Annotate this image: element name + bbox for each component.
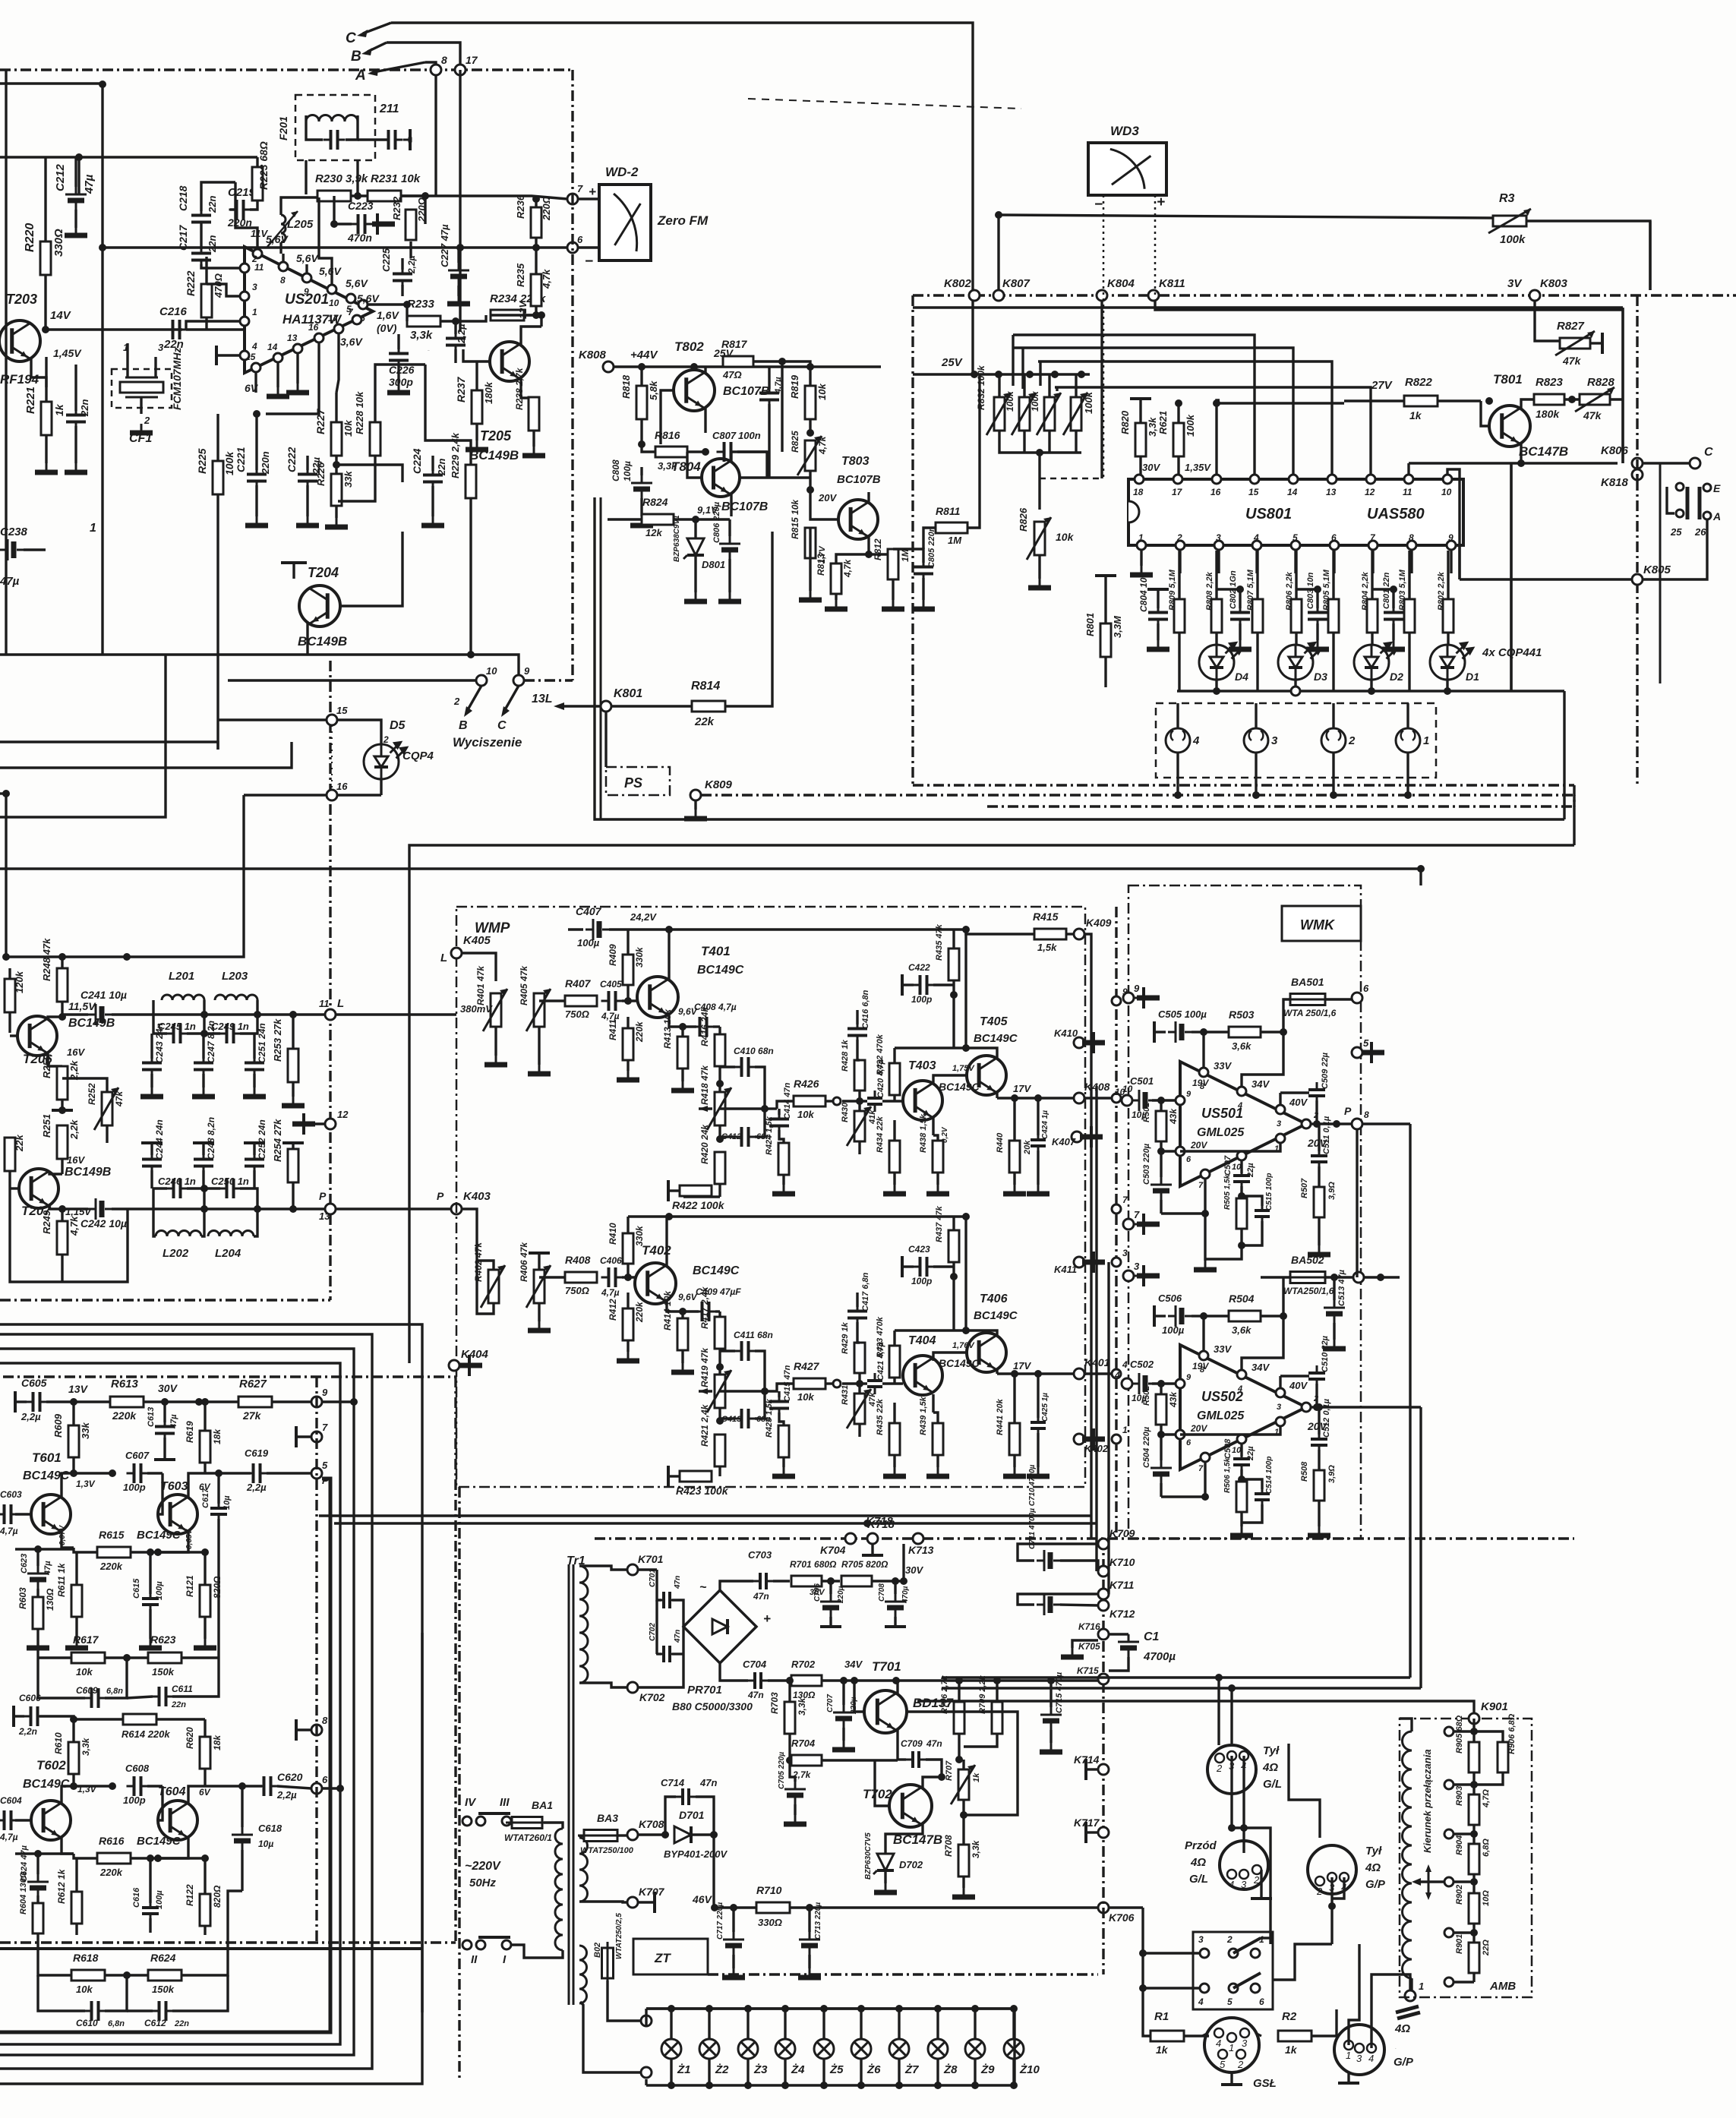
svg-text:R2: R2	[1282, 2010, 1297, 2023]
resistor R808	[1211, 599, 1222, 633]
capacitor C510	[1308, 1365, 1325, 1387]
node K715	[1098, 1674, 1109, 1684]
svg-text:3,6k: 3,6k	[1232, 1040, 1251, 1052]
wire D801	[694, 519, 696, 538]
wire R249	[61, 1209, 63, 1221]
svg-text:C227 47µ: C227 47µ	[439, 224, 450, 267]
svg-text:10k: 10k	[76, 1984, 93, 1995]
svg-text:R226: R226	[315, 462, 327, 486]
wire pin3 left	[207, 284, 240, 296]
svg-text:C405: C405	[600, 979, 622, 990]
transistor T602	[31, 1801, 71, 1840]
pin 15 US801	[1250, 475, 1259, 484]
svg-text:40V: 40V	[1289, 1097, 1308, 1108]
wire R435	[952, 930, 955, 949]
wire K901 up	[1021, 1701, 1474, 1713]
svg-text:11: 11	[1403, 487, 1412, 497]
svg-text:4Ω: 4Ω	[1190, 1856, 1206, 1869]
svg-text:R121: R121	[185, 1575, 195, 1597]
diode D701	[674, 1826, 691, 1843]
svg-text:4,7µ: 4,7µ	[601, 1287, 620, 1298]
wire mid secondary to BA3	[579, 1835, 582, 1838]
wire T207 collector	[49, 1172, 62, 1174]
capacitor C606	[24, 1706, 46, 1726]
svg-text:ZT: ZT	[654, 1951, 671, 1965]
node K712	[1098, 1600, 1109, 1611]
svg-text:Ż3: Ż3	[753, 2063, 768, 2076]
wire R610	[72, 1719, 74, 1742]
svg-text:BC149C: BC149C	[974, 1032, 1018, 1045]
svg-text:T701: T701	[872, 1659, 901, 1674]
svg-text:R506 1,5k: R506 1,5k	[1223, 1457, 1232, 1493]
ground R226	[325, 518, 348, 527]
junction	[75, 153, 83, 161]
svg-text:47n: 47n	[926, 1738, 942, 1749]
wire R504 to BA502	[1282, 1277, 1284, 1316]
wire R505 bus down	[1205, 1245, 1242, 1259]
svg-text:WTA250/1,6: WTA250/1,6	[1283, 1286, 1334, 1296]
wire bottom T207	[10, 1171, 62, 1282]
wire R413	[681, 1027, 683, 1037]
svg-text:47µ: 47µ	[83, 174, 96, 194]
wire R815	[809, 528, 811, 558]
wire bus k line vertical	[1419, 869, 1422, 885]
svg-text:Ż9: Ż9	[980, 2063, 995, 2076]
wire T406 out	[997, 1372, 1074, 1375]
potentiometer R830	[1019, 397, 1030, 431]
svg-text:470n: 470n	[347, 232, 372, 244]
svg-text:100k: 100k	[1030, 390, 1040, 412]
wire T403 emitter	[932, 1117, 934, 1135]
resistor R236	[531, 207, 541, 238]
svg-text:R809 5,1M: R809 5,1M	[1168, 569, 1177, 611]
wire lamp rail bottom	[646, 2084, 1015, 2086]
svg-text:R252: R252	[87, 1083, 97, 1105]
svg-text:BC149C: BC149C	[939, 1081, 980, 1093]
ground pin14	[267, 387, 289, 396]
svg-text:P: P	[322, 1475, 329, 1486]
capacitor C616	[142, 1900, 159, 1921]
capacitor C227	[448, 263, 469, 286]
svg-text:C808: C808	[611, 459, 621, 481]
svg-text:AMB: AMB	[1489, 1980, 1516, 1993]
resistor R611	[71, 1585, 82, 1617]
svg-text:2: 2	[1216, 1763, 1223, 1774]
svg-text:C501: C501	[1130, 1075, 1154, 1087]
wire cap top bars	[1217, 588, 1240, 590]
capacitor C607	[127, 1463, 149, 1483]
wire C228 up	[454, 321, 456, 334]
wire K701 right	[638, 1568, 657, 1570]
wire C711	[1060, 1605, 1098, 1605]
wire T405 collector	[895, 1048, 997, 1059]
svg-text:5,6V: 5,6V	[266, 233, 289, 245]
svg-text:R409: R409	[608, 944, 618, 966]
wire P out down	[1356, 1129, 1358, 1277]
capacitor C711	[1037, 1594, 1060, 1615]
svg-text:11: 11	[319, 998, 330, 1009]
resistor R422	[680, 1185, 712, 1196]
wire T602 emitter	[62, 1837, 74, 1854]
wire C806	[728, 519, 731, 536]
wire T204 base right	[340, 532, 402, 606]
svg-text:R238 2,7k: R238 2,7k	[514, 367, 525, 410]
wire pin2 left	[201, 264, 240, 268]
svg-text:−: −	[1094, 197, 1103, 213]
svg-text:R815 10k: R815 10k	[790, 499, 800, 539]
potentiometer R827	[1560, 338, 1590, 349]
svg-text:C415 47n: C415 47n	[783, 1365, 792, 1402]
wire K714 gnd	[1086, 1768, 1098, 1770]
resistor R703	[784, 1702, 795, 1734]
lamp Z4	[775, 2039, 795, 2059]
svg-text:3: 3	[1271, 734, 1278, 747]
dash-dot 800 left border	[911, 295, 914, 785]
wire T803 out	[869, 549, 896, 554]
svg-text:FCM107MHz: FCM107MHz	[171, 348, 183, 410]
wire pin9 up	[305, 264, 308, 273]
wire T604 collector	[188, 1786, 205, 1804]
wire T803 collector	[867, 492, 870, 503]
capacitor C803	[1308, 605, 1327, 627]
svg-text:750Ω: 750Ω	[565, 1285, 589, 1296]
svg-text:C251 24n: C251 24n	[257, 1023, 267, 1063]
svg-text:C507: C507	[1223, 1155, 1233, 1176]
wire R237	[475, 361, 478, 390]
connector 4ohm G/P	[1334, 2025, 1384, 2075]
wire y1260 row	[6, 955, 127, 958]
potentiometer R828	[1580, 394, 1610, 405]
capacitor C715	[1040, 1707, 1062, 1730]
wire bus y1139	[0, 867, 1421, 870]
node 1 wmk	[1112, 1435, 1121, 1444]
svg-text:10k: 10k	[797, 1109, 814, 1120]
svg-text:30V: 30V	[1142, 462, 1160, 473]
svg-text:C606: C606	[19, 1693, 41, 1703]
svg-text:C: C	[1704, 446, 1713, 459]
wire R811	[923, 528, 936, 549]
wire T804 collector right	[731, 452, 767, 462]
wire lamp Z7	[898, 2009, 900, 2039]
svg-text:C424 1µ: C424 1µ	[1041, 1110, 1049, 1139]
svg-text:9: 9	[524, 665, 530, 677]
resistor R803	[1404, 599, 1415, 633]
svg-text:2: 2	[453, 696, 460, 707]
wire R230-R231	[351, 194, 368, 197]
resistor R228	[370, 422, 380, 456]
svg-text:6: 6	[1186, 1155, 1192, 1164]
node K401	[1074, 1368, 1084, 1379]
wire vertical x2137	[1621, 308, 1624, 463]
svg-text:T401: T401	[701, 944, 731, 958]
pin 4 US502	[1237, 1370, 1246, 1379]
ground K809	[684, 810, 707, 819]
wire R422 row	[683, 1195, 720, 1198]
wire R438	[933, 1135, 938, 1141]
svg-text:T603: T603	[160, 1480, 188, 1493]
svg-text:US501: US501	[1201, 1106, 1243, 1121]
svg-text:34V: 34V	[844, 1659, 863, 1670]
wire C226 dn	[397, 365, 399, 384]
svg-text:D801: D801	[702, 559, 725, 570]
svg-text:4,7Ω: 4,7Ω	[1482, 1789, 1491, 1808]
svg-text:3: 3	[1277, 1403, 1281, 1412]
svg-text:R235: R235	[515, 263, 526, 287]
capacitor C249	[219, 1024, 241, 1043]
node 3 wmk	[1112, 1258, 1121, 1267]
wire T603 collector to C619	[205, 1472, 251, 1474]
svg-text:T205: T205	[480, 428, 512, 443]
tap pin 2350	[1444, 1780, 1454, 1789]
svg-text:100µ: 100µ	[1162, 1324, 1185, 1336]
wire R121	[204, 1552, 206, 1585]
svg-text:6: 6	[322, 1774, 328, 1785]
resistor R710	[756, 1902, 790, 1913]
svg-text:22k: 22k	[14, 1135, 25, 1152]
wire T602 collector row	[74, 1785, 112, 1787]
capacitor C515	[1255, 1203, 1270, 1224]
zener D702	[873, 1854, 894, 1874]
wire +44V rail	[614, 365, 881, 368]
wire T401 emitter	[669, 1014, 696, 1027]
svg-text:47k: 47k	[1562, 355, 1582, 367]
wire line2 down	[1230, 1688, 1233, 1744]
svg-text:F201: F201	[277, 116, 289, 140]
svg-text:R440: R440	[996, 1132, 1005, 1153]
wire T204 collector bar	[281, 561, 307, 564]
wire R619	[204, 1402, 206, 1431]
svg-text:C222: C222	[286, 447, 298, 472]
node K804	[1097, 290, 1107, 301]
potentiometer R707	[958, 1769, 969, 1800]
wire caps bridge	[657, 1596, 661, 1600]
node K802	[969, 290, 980, 301]
svg-text:R428 1k: R428 1k	[841, 1040, 850, 1072]
svg-text:22k: 22k	[694, 715, 715, 728]
resistor R220	[40, 241, 51, 275]
transformer Tr1 core	[568, 1564, 570, 2005]
svg-text:6: 6	[1259, 1996, 1264, 2007]
potentiometer R252	[102, 1092, 112, 1125]
dash horizontal to R826	[1040, 478, 1102, 480]
svg-text:B: B	[351, 49, 361, 65]
dash-dot 200-block bottom border	[0, 1299, 330, 1301]
svg-text:3,6k: 3,6k	[1232, 1324, 1251, 1336]
svg-text:R616: R616	[99, 1835, 125, 1847]
wire pin1	[1180, 1143, 1280, 1151]
svg-text:P: P	[319, 1190, 327, 1202]
LED D1	[1430, 643, 1473, 680]
wire C242	[62, 1207, 88, 1210]
svg-text:211: 211	[379, 103, 399, 115]
terminal lamp top	[641, 2015, 652, 2026]
svg-text:3,3k: 3,3k	[80, 1737, 91, 1756]
wire C608 right	[147, 1785, 163, 1787]
wire C228 down	[454, 349, 456, 363]
wire lamp Z5	[822, 2009, 825, 2039]
pin 16 US801	[1212, 475, 1221, 484]
wire y1076 step	[0, 655, 166, 817]
svg-text:3,6V: 3,6V	[340, 336, 363, 348]
svg-text:10µ: 10µ	[258, 1839, 273, 1849]
svg-text:100k: 100k	[1005, 390, 1015, 412]
capacitor C406	[601, 1267, 623, 1287]
capacitor C624	[27, 1874, 49, 1897]
wire node15 left	[218, 718, 327, 721]
wire T701 emitter	[896, 1729, 898, 1760]
resistor R414	[677, 1318, 688, 1350]
pin 17 US801	[1173, 475, 1182, 484]
svg-text:6,8n: 6,8n	[108, 2019, 125, 2028]
node K403	[451, 1204, 462, 1214]
svg-text:R703: R703	[769, 1692, 780, 1714]
wire T404 emitter	[932, 1394, 934, 1413]
arrow AMB wiper	[1417, 1880, 1444, 1883]
svg-text:R503: R503	[1229, 1008, 1255, 1021]
svg-text:Przód: Przód	[1185, 1839, 1217, 1852]
arrow A	[374, 62, 425, 72]
pin 7 US801	[1368, 541, 1378, 550]
pin 5 US801	[1291, 541, 1300, 550]
resistor R802	[1443, 599, 1454, 633]
capacitor C244	[142, 1152, 162, 1174]
svg-text:R621: R621	[1157, 411, 1169, 434]
svg-text:17: 17	[1172, 487, 1183, 497]
svg-text:K709: K709	[1109, 1527, 1135, 1539]
svg-text:R420 24k: R420 24k	[699, 1124, 710, 1164]
svg-text:3: 3	[1198, 1934, 1204, 1945]
tap pin 2610	[1444, 1978, 1454, 1987]
resistor R503	[1229, 1027, 1261, 1037]
inductor L202	[156, 1231, 201, 1236]
svg-text:20V: 20V	[818, 492, 837, 503]
ground F201	[409, 139, 412, 141]
svg-text:R122: R122	[185, 1884, 195, 1906]
svg-text:C511 0,1µ: C511 0,1µ	[1322, 1116, 1331, 1154]
wire T401 collector	[668, 930, 670, 980]
resistor R440	[1009, 1141, 1020, 1173]
wire R419 R427 row	[720, 1390, 765, 1392]
svg-text:2,2µ: 2,2µ	[276, 1789, 297, 1801]
wire T601 emitter	[62, 1531, 74, 1548]
svg-text:R427: R427	[794, 1360, 820, 1372]
wire pin1 left	[186, 321, 240, 330]
pin 2 US201 left	[240, 264, 249, 273]
node 13 P	[325, 1204, 336, 1214]
svg-text:10k: 10k	[797, 1391, 814, 1403]
resistor R822	[1404, 396, 1438, 406]
svg-text:100k: 100k	[1500, 233, 1526, 246]
lamp 4	[1166, 728, 1190, 753]
ground pin1 US801	[1130, 566, 1153, 575]
resistor R616	[97, 1853, 131, 1864]
node K405	[451, 948, 462, 958]
pin 16 US201 bottom	[314, 333, 324, 342]
capacitor C610	[84, 2001, 106, 2021]
pin 2 US501	[1302, 1119, 1311, 1128]
wire vertical mid down	[1095, 1086, 1097, 1571]
wire T205 emitter	[521, 378, 534, 398]
pin 25	[1676, 510, 1684, 517]
svg-text:10k: 10k	[816, 384, 828, 400]
dashed box CF1	[112, 369, 172, 408]
svg-text:5,6V: 5,6V	[346, 277, 368, 289]
wire T203 emitter	[31, 358, 46, 387]
wire K708 right	[638, 1833, 665, 1835]
svg-text:R706 2,7k: R706 2,7k	[940, 1675, 949, 1714]
node K718	[867, 1533, 878, 1544]
wire T801 collector	[1521, 399, 1535, 409]
svg-text:R413 10k: R413 10k	[662, 1008, 673, 1049]
pin 8 US801	[1407, 541, 1416, 550]
wire T603 collector	[188, 1473, 205, 1498]
svg-text:Ż5: Ż5	[829, 2063, 844, 2076]
node 3 wmk2	[1123, 1270, 1134, 1281]
pin 1 US801	[1137, 541, 1146, 550]
wire T804 emitter	[730, 494, 732, 516]
svg-text:R508: R508	[1300, 1461, 1309, 1482]
resistor R429	[854, 1343, 865, 1373]
svg-text:22µ: 22µ	[1246, 1446, 1255, 1461]
wire R3 row	[999, 215, 1493, 218]
wire line y977	[0, 742, 218, 750]
wire bus to right	[1510, 463, 1512, 691]
svg-text:9: 9	[304, 286, 309, 297]
svg-text:3: 3	[1216, 532, 1221, 543]
svg-text:R249: R249	[41, 1210, 52, 1234]
resistor R817	[723, 356, 753, 367]
svg-text:PR701: PR701	[687, 1684, 722, 1697]
capacitor C619	[246, 1463, 268, 1483]
pin 6 US502	[1176, 1430, 1185, 1439]
capacitor C512	[1311, 1431, 1327, 1453]
wire T403 base	[882, 1100, 903, 1102]
svg-text:19V: 19V	[1192, 1078, 1209, 1088]
wire x1505 vertical	[1143, 1908, 1150, 2036]
svg-text:R807 5,1M: R807 5,1M	[1246, 569, 1255, 611]
svg-text:C508: C508	[1223, 1438, 1233, 1459]
wire bus L4	[0, 1363, 340, 2044]
wire T801 emitter	[1520, 443, 1522, 463]
svg-text:C703: C703	[748, 1549, 772, 1561]
svg-text:Kierunek przełączania: Kierunek przełączania	[1422, 1749, 1433, 1853]
svg-text:9: 9	[1134, 983, 1140, 994]
node K706	[1098, 1902, 1109, 1913]
svg-text:K404: K404	[461, 1348, 489, 1361]
svg-text:BC107B: BC107B	[721, 500, 768, 513]
svg-text:K410: K410	[1054, 1027, 1078, 1039]
svg-text:2,2µ: 2,2µ	[246, 1482, 267, 1493]
svg-text:WTAT260/1: WTAT260/1	[504, 1832, 552, 1843]
wire R616	[74, 1854, 97, 1858]
pot arrow L205	[267, 211, 298, 247]
svg-text:US801: US801	[1245, 506, 1292, 522]
capacitor C504	[1150, 1460, 1172, 1483]
svg-text:C504 220µ: C504 220µ	[1142, 1426, 1151, 1468]
resistor R248	[57, 968, 68, 1002]
lamp Z7	[889, 2039, 909, 2059]
node K704	[845, 1533, 856, 1544]
svg-text:R414 10k: R414 10k	[662, 1290, 673, 1330]
wire R1 right	[1184, 2034, 1209, 2037]
svg-text:5: 5	[1293, 532, 1298, 543]
svg-text:10k: 10k	[76, 1666, 93, 1678]
wire R418-R426 row	[720, 1107, 765, 1110]
wire K707 gnd	[638, 1901, 655, 1903]
svg-text:4Ω: 4Ω	[1365, 1861, 1381, 1874]
svg-text:C238: C238	[0, 526, 28, 538]
svg-text:33k: 33k	[342, 471, 354, 488]
